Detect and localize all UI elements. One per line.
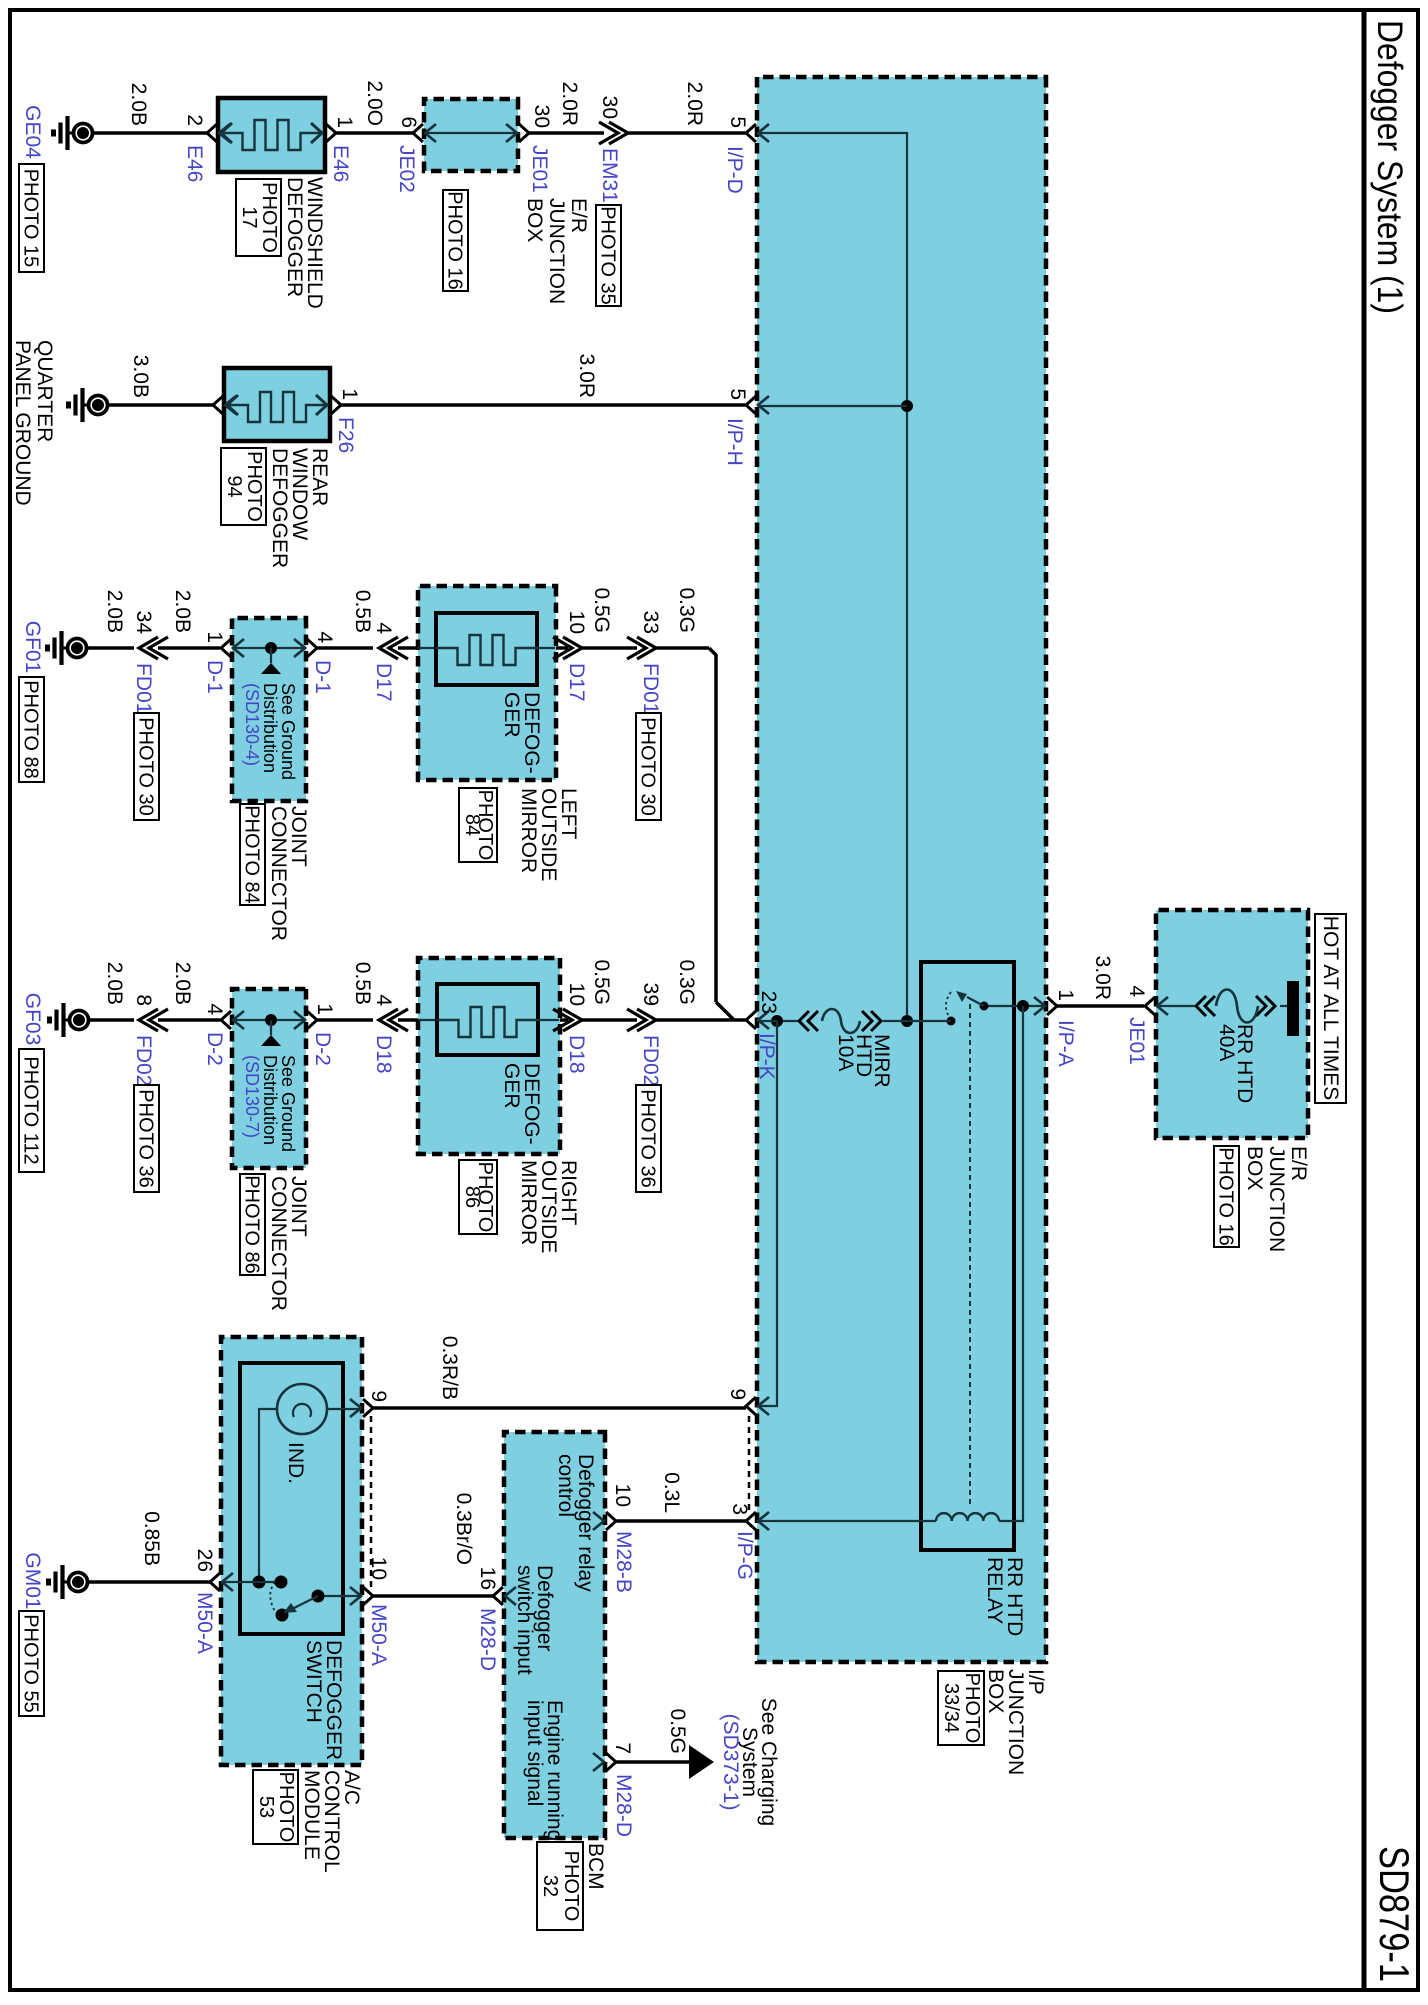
switch contact B [275,1576,288,1589]
svg-text:3.0R: 3.0R [575,354,598,398]
connector arrows inside windshield defogger [221,123,232,143]
wire windshield defogger to JE02 [336,131,413,135]
svg-text:0.5G: 0.5G [590,959,613,1005]
connector pin 4 D-2 at joint connector [221,1011,244,1029]
svg-text:86: 86 [461,1186,483,1208]
windshield defogger box E46 [218,98,325,172]
wire FD02 to I/P-K [656,1018,746,1022]
svg-text:Distribution: Distribution [260,683,280,773]
wire FD02 to joint connector D-2 [158,1018,220,1022]
svg-text:4: 4 [372,994,395,1006]
dashed link pin 9 to pin 10 at switch [370,1416,373,1588]
svg-text:3: 3 [728,1503,751,1515]
photo box PHOTO 17 [236,179,281,256]
connector pin 9 at A/C module [350,1399,373,1417]
connector pin 5 I/P-H at I/P junction box [746,396,769,414]
connector pin 7 M28-D at BCM [593,1753,616,1771]
svg-text:D18: D18 [565,1035,588,1074]
wire relay contact to bus [907,1020,951,1022]
svg-text:9: 9 [726,1388,749,1400]
svg-text:PHOTO 36: PHOTO 36 [135,1089,157,1188]
svg-text:HOT AT ALL TIMES: HOT AT ALL TIMES [1319,916,1342,1100]
E/R junction box (right) [1156,910,1308,1138]
svg-text:Defogger System (1): Defogger System (1) [1370,20,1409,314]
svg-text:4: 4 [313,631,336,643]
node bus tap I/P-H [901,400,913,412]
svg-text:2.0B: 2.0B [127,83,150,126]
svg-text:MIRROR: MIRROR [517,788,540,873]
svg-text:FD02: FD02 [639,1035,662,1086]
svg-text:2.0R: 2.0R [683,82,706,126]
photo box PHOTO 15 [19,164,44,272]
photo box PHOTO 16 (left) [443,190,468,291]
fuse MIRR HTD 10A [777,1009,907,1033]
connector at rear window defogger bottom [213,396,236,414]
svg-text:D-1: D-1 [203,660,226,694]
switch contact C [312,1590,325,1603]
connector pin 1 D-1 at joint connector [221,639,244,657]
connector pin 26 M50-A at A/C module [210,1573,233,1591]
photo box PHOTO 30 (lower) [134,713,159,820]
svg-text:2.0O: 2.0O [363,80,386,126]
wire ground GE04 to windshield defogger [94,131,207,135]
connector pin 9 at I/P junction box [746,1397,769,1415]
ground GE04 [54,116,93,150]
svg-text:1: 1 [203,631,226,643]
wire 0.85B switch to ground [89,1580,210,1584]
photo box PHOTO 88 [19,677,44,782]
svg-text:(SD373-1): (SD373-1) [719,1714,742,1811]
svg-text:BOX: BOX [523,198,546,242]
ground distribution arrow D-2 [270,1020,272,1035]
svg-text:M50-A: M50-A [367,1604,390,1666]
switch travel arc [270,1582,276,1613]
svg-text:0.3Br/O: 0.3Br/O [452,1493,475,1565]
svg-text:0.5B: 0.5B [351,590,374,633]
node fuse output junction [771,1015,783,1027]
wire bus from I/P-D to relay output [758,133,907,1021]
defogger left outside mirror dashed box [418,586,556,780]
switch contact D [276,1609,289,1622]
svg-text:2.0R: 2.0R [558,82,581,126]
wire D-1 to D17 [317,646,373,650]
wire inside right mirror box upper [538,1019,559,1021]
ground GF03 [50,1003,89,1037]
inline connector 10 D18 [553,1009,582,1031]
svg-text:FD01: FD01 [639,663,662,714]
wire FD01 to joint connector D-1 [158,646,220,650]
svg-text:QUARTER: QUARTER [33,340,56,442]
defogger element box left mirror [436,613,537,685]
wire inside left mirror box upper [537,647,555,649]
defogger element box right mirror [437,984,538,1055]
svg-text:SWITCH: SWITCH [302,1640,325,1723]
svg-text:2.0B: 2.0B [103,962,126,1005]
dashed link pin 9 to pin 3 [748,1416,751,1510]
connector pin 2 E46 at windshield defogger [207,124,230,142]
ground distribution arrow D-1 [270,648,272,663]
wire fuse output to pin 9 [758,1021,777,1406]
svg-text:D-2: D-2 [311,1032,334,1066]
wire diagonal join to right mirror feed [716,1002,734,1020]
svg-text:SD879-1: SD879-1 [1371,1846,1418,1982]
wire inside joint connector D-1 [233,647,305,649]
photo box PHOTO 86 (joint connector) [240,1174,265,1275]
svg-text:0.3G: 0.3G [675,959,698,1005]
svg-text:JE02: JE02 [395,145,418,193]
wire inside joint connector D-2 [233,1019,305,1021]
svg-text:FD01: FD01 [132,663,155,714]
svg-text:39: 39 [639,983,662,1006]
wire pin 26 riser [222,1581,281,1583]
photo box PHOTO 35 [596,205,621,306]
svg-text:32: 32 [539,1875,561,1897]
fuse RR HTD 40A [1157,990,1287,1023]
svg-text:2: 2 [183,114,206,126]
svg-text:BCM: BCM [584,1843,607,1890]
svg-text:0.3L: 0.3L [660,1472,683,1513]
svg-text:PHOTO 16: PHOTO 16 [444,191,466,290]
svg-text:0.3G: 0.3G [675,587,698,633]
node junction dot D-2 [265,1014,277,1026]
svg-text:JE01: JE01 [1125,1017,1148,1065]
svg-text:10: 10 [611,1484,634,1507]
svg-text:1: 1 [313,1003,336,1015]
wire D17 to FD01 upper [582,646,637,650]
svg-text:IND.: IND. [284,1442,307,1484]
resistor rear window defogger element [226,392,328,422]
wire left mirror to D17 upper [556,646,568,650]
svg-text:PHOTO 84: PHOTO 84 [241,805,263,904]
relay coil [936,1513,999,1521]
svg-text:PHOTO: PHOTO [560,1851,582,1922]
svg-text:2.0B: 2.0B [171,962,194,1005]
svg-text:JUNCTION: JUNCTION [1265,1146,1288,1252]
svg-text:DEFOGGER: DEFOGGER [283,177,306,297]
relay common contact [980,1002,989,1011]
photo box PHOTO 53 [253,1770,298,1844]
svg-text:7: 7 [611,1742,634,1754]
wire relay coil feed [999,1006,1023,1521]
ground QUARTER PANEL GROUND [69,388,108,422]
svg-text:0.3R/B: 0.3R/B [438,1336,461,1400]
photo box PHOTO 36 (lower) [134,1085,159,1192]
relay normally-open contact [947,1017,956,1026]
relay box RR HTD RELAY [921,962,1014,1550]
switch blade [294,1596,318,1608]
wire 0.3Br/O BCM to switch [373,1594,493,1598]
wire ground GF03 to FD02 [90,1018,134,1022]
wire left mirror feed horizontal [709,648,716,1002]
wire 0.5G engine running signal [616,1760,689,1764]
svg-text:I/P-A: I/P-A [1054,1020,1077,1067]
defogger right outside mirror dashed box [418,958,560,1154]
svg-text:8: 8 [132,994,155,1006]
svg-text:3.0B: 3.0B [129,355,152,398]
wire FD01 to corner 0.3G left [656,646,709,650]
svg-text:2.0B: 2.0B [103,590,126,633]
svg-text:RELAY: RELAY [983,1557,1006,1624]
svg-text:D-2: D-2 [203,1032,226,1066]
svg-text:See Ground: See Ground [278,683,298,780]
svg-text:PHOTO 36: PHOTO 36 [637,1089,659,1188]
svg-text:PHOTO 35: PHOTO 35 [597,206,619,305]
wire pin 10 drop [318,1595,361,1597]
connector pin 1 E46 at windshield defogger top [326,124,336,142]
A/C control module box [221,1337,362,1765]
connector pin 4 JE01 at E/R junction box [1145,997,1168,1015]
svg-text:D18: D18 [372,1035,395,1074]
inline connector 4 D18 [379,1009,408,1031]
rear window defogger box F26 [224,368,330,441]
defogger switch inner box [240,1363,343,1634]
node lamp tap on pin 26 wire [253,1576,266,1589]
node junction dot D-1 [265,642,277,654]
svg-text:1: 1 [333,116,356,128]
connector pin 10 M50-A at A/C module [350,1587,373,1605]
svg-text:PHOTO 30: PHOTO 30 [135,717,157,816]
photo box PHOTO 94 [221,448,266,525]
svg-text:MODULE: MODULE [300,1770,323,1860]
connector pin 30 JE01 at E/R junction box top [506,124,529,142]
connector pin 3 I/P-G at I/P junction box [746,1512,769,1530]
wire right mirror to D18 upper [560,1018,568,1022]
photo box PHOTO 86 (right mirror) [459,1160,497,1234]
E/R junction box (left) [424,99,518,171]
svg-text:BOX: BOX [1243,1146,1266,1190]
BCM box [504,1432,605,1838]
svg-text:40A: 40A [1215,1024,1238,1061]
svg-text:M28-D: M28-D [612,1774,635,1837]
svg-text:control: control [554,1454,577,1517]
svg-text:I/P-K: I/P-K [755,1033,778,1080]
svg-text:GE04: GE04 [21,105,44,159]
svg-text:CONNECTOR: CONNECTOR [267,1176,290,1311]
svg-text:PANEL GROUND: PANEL GROUND [11,340,34,506]
svg-text:17: 17 [238,206,260,228]
svg-text:33/34: 33/34 [940,1683,962,1733]
wire 0.3L I/P-G to BCM [616,1519,746,1523]
title strip divider [1362,10,1367,1990]
wire JE01 to EM31 [529,131,604,135]
svg-text:PHOTO 88: PHOTO 88 [20,680,42,779]
svg-text:PHOTO 86: PHOTO 86 [241,1175,263,1274]
svg-text:0.5G: 0.5G [666,1708,689,1754]
wire lamp to pin 9 [327,1408,361,1410]
wire D18 to right mirror box [398,1018,418,1022]
wire fuse output to I/P-K pin [758,1020,777,1022]
svg-text:4: 4 [1125,985,1148,997]
svg-text:34: 34 [132,611,155,635]
svg-text:0.5G: 0.5G [590,587,613,633]
svg-text:FD02: FD02 [132,1035,155,1086]
svg-text:84: 84 [461,814,483,836]
resistor left mirror defogger element [436,635,537,665]
wire relay coil to I/P-G pin 3 [758,1520,936,1522]
ground GM01 [49,1565,88,1599]
svg-text:33: 33 [639,611,662,634]
inline connector 33 FD01 [627,637,656,659]
photo box PHOTO 84 (joint connector) [240,804,265,905]
svg-text:(SD130-7): (SD130-7) [242,1055,262,1138]
svg-text:See Ground: See Ground [278,1055,298,1152]
svg-text:F26: F26 [334,417,357,453]
wire I/P-H pin to bus [758,405,907,407]
svg-text:30: 30 [530,105,553,128]
ground GF01 [48,631,87,665]
photo box PHOTO 30 (upper) [636,713,661,820]
svg-text:1: 1 [338,388,361,400]
svg-text:M50-A: M50-A [193,1592,216,1654]
wire D-2 to D18 [317,1018,373,1022]
svg-text:4: 4 [203,1003,226,1015]
connector pin 23 I/P-K at I/P junction box [746,1011,769,1029]
inline connector 4 D17 [379,637,408,659]
svg-text:E/R: E/R [567,198,590,233]
svg-text:0.85B: 0.85B [140,1511,163,1566]
svg-text:D17: D17 [372,663,395,702]
relay travel arc [946,992,951,1017]
wire ground GF01 to FD01 [88,646,134,650]
svg-text:E46: E46 [329,145,352,182]
svg-text:94: 94 [223,475,245,497]
svg-text:5: 5 [726,388,749,400]
inline connector 30 EM31 [599,122,628,144]
svg-text:23: 23 [757,991,780,1014]
svg-text:JE01: JE01 [528,145,551,193]
wire D18 to FD02 upper [582,1018,637,1022]
inline connector 34 FD01 [139,637,168,659]
connector pin 10 M28-B at BCM [593,1512,616,1530]
wire lamp to switch common [259,1409,277,1582]
relay armature dashed link [969,1004,971,1505]
svg-text:M28-B: M28-B [612,1531,635,1593]
svg-text:16: 16 [476,1567,499,1590]
svg-text:10A: 10A [834,1034,857,1071]
photo box PHOTO 112 [19,1049,44,1172]
node relay feed junction [1017,1000,1029,1012]
wire EM31 to I/P-D [628,131,746,135]
svg-text:53: 53 [255,1796,277,1818]
svg-text:6: 6 [397,116,420,128]
svg-text:5: 5 [726,116,749,128]
photo box PHOTO 36 (upper) [636,1085,661,1192]
node bus to relay/fuse junction [901,1015,913,1027]
svg-text:E46: E46 [183,145,206,182]
wire inside E/R junction box [425,132,517,134]
connector pin 5 I/P-D at I/P junction box [746,124,769,142]
svg-text:PHOTO: PHOTO [243,451,265,522]
joint connector box D-2 [232,989,306,1168]
svg-text:4: 4 [372,622,395,634]
svg-text:input signal: input signal [523,1700,546,1806]
svg-text:3.0R: 3.0R [1091,956,1114,1000]
svg-text:CONNECTOR: CONNECTOR [267,806,290,941]
svg-text:PHOTO: PHOTO [275,1772,297,1843]
svg-text:PHOTO 16: PHOTO 16 [1215,1147,1237,1246]
svg-text:GF03: GF03 [21,993,44,1046]
photo box PHOTO 33/34 [938,1671,984,1745]
svg-text:26: 26 [193,1549,216,1572]
hot bus bar [1287,981,1299,1036]
connector arrows inside rear window defogger [227,395,238,415]
svg-text:9: 9 [367,1390,390,1402]
svg-text:Distribution: Distribution [260,1055,280,1145]
photo box PHOTO 84 (left mirror) [459,788,497,862]
svg-text:PHOTO: PHOTO [961,1673,983,1744]
svg-text:E/R: E/R [1287,1146,1310,1181]
connector pin 1 I/P-A at I/P junction box top [1034,997,1057,1015]
connector pin 1 D-2 at joint connector top [294,1011,317,1029]
svg-text:D17: D17 [565,663,588,702]
wire D17 to left mirror box [398,646,418,650]
connector pin 6 JE02 at E/R junction box [413,124,436,142]
inline connector 10 D17 [553,637,582,659]
resistor right mirror defogger element [437,1007,538,1037]
wire ground to rear window defogger [109,403,213,407]
svg-text:PHOTO 30: PHOTO 30 [637,717,659,816]
label HOT AT ALL TIMES [1315,914,1346,1103]
svg-text:30: 30 [598,96,621,119]
svg-text:BOX: BOX [984,1669,1007,1713]
connector pin 1 F26 at rear window defogger top [331,396,341,414]
inline connector 8 FD02 [139,1009,168,1031]
svg-text:I/P-D: I/P-D [723,146,746,194]
inline connector 39 FD02 [627,1009,656,1031]
svg-text:D-1: D-1 [311,660,334,694]
svg-text:GM01: GM01 [21,1552,44,1609]
wire rear window defogger to I/P-H [341,403,746,407]
wire inside left mirror box lower [418,647,437,649]
svg-text:10: 10 [565,611,588,634]
svg-text:switch input: switch input [513,1565,536,1675]
svg-text:GER: GER [500,1063,523,1109]
connector pin 16 M28-D at BCM [493,1587,516,1605]
I/P junction box [757,77,1046,1662]
wire 0.3R/B pin9 to defogger switch [373,1406,746,1410]
arrow to charging system [689,1745,714,1779]
joint connector box D-1 [232,618,306,801]
svg-text:I/P-G: I/P-G [733,1531,756,1580]
svg-text:(SD130-4): (SD130-4) [242,683,262,766]
svg-text:PHOTO 15: PHOTO 15 [20,169,42,268]
svg-text:GER: GER [500,692,523,738]
svg-text:PHOTO: PHOTO [258,182,280,253]
svg-text:I/P-H: I/P-H [723,418,746,466]
photo box PHOTO 55 [19,1611,44,1716]
svg-text:GF01: GF01 [21,621,44,674]
wire I/P-A pin into relay [984,1005,1045,1007]
indicator lamp IND [277,1384,327,1434]
svg-text:EM31: EM31 [598,148,621,203]
wire I/P-A to JE01 [1057,1004,1144,1008]
svg-text:MIRROR: MIRROR [517,1160,540,1245]
photo box PHOTO 32 [537,1842,583,1930]
svg-text:PHOTO 112: PHOTO 112 [20,1056,42,1164]
svg-text:PHOTO 55: PHOTO 55 [20,1614,42,1713]
svg-text:2.0B: 2.0B [171,590,194,633]
relay switch blade [967,997,984,1006]
connector pin 4 D-1 at joint connector top [294,639,317,657]
resistor windshield defogger element [220,120,323,150]
svg-text:0.5B: 0.5B [351,962,374,1005]
wire inside right mirror box lower [418,1019,438,1021]
photo box PHOTO 16 (right) [1214,1146,1239,1247]
svg-text:JUNCTION: JUNCTION [545,198,568,304]
svg-text:1: 1 [1054,989,1077,1001]
svg-text:M28-D: M28-D [476,1608,499,1671]
svg-text:10: 10 [565,983,588,1006]
